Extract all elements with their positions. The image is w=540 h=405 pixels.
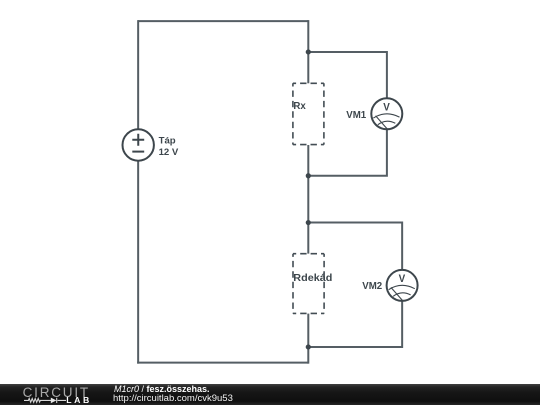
wire VM2 branch bottom xyxy=(308,301,402,347)
voltmeter VM1 xyxy=(371,98,402,129)
node junction at VM2 bottom xyxy=(306,344,311,349)
wire bottom horizontal xyxy=(137,362,308,364)
voltage source V1 Tap xyxy=(123,129,154,160)
svg-text:VM2: VM2 xyxy=(362,281,382,292)
node junction dots xyxy=(306,49,311,349)
wire VM1 branch bottom xyxy=(308,129,387,175)
svg-text:V: V xyxy=(383,102,390,114)
svg-text:V: V xyxy=(399,273,406,285)
wire left vertical lower xyxy=(137,161,139,364)
node junction at VM1 top xyxy=(306,49,311,54)
node junction at VM2 top xyxy=(306,220,311,225)
label Tap 12 V xyxy=(159,136,179,159)
wire middle vertical Rx to Rdekad xyxy=(307,145,309,254)
node junction at VM1 bottom xyxy=(306,173,311,178)
svg-text:LAB: LAB xyxy=(66,395,92,405)
svg-text:12 V: 12 V xyxy=(159,147,179,158)
wire VM1 branch top xyxy=(308,52,387,99)
svg-text:Rx: Rx xyxy=(293,101,306,112)
resistor Rx dashed box xyxy=(293,83,324,144)
logo diode triangle xyxy=(51,398,57,404)
wire middle vertical top to Rx xyxy=(307,20,309,83)
wire top horizontal xyxy=(138,20,308,22)
CircuitLab logo xyxy=(0,383,110,405)
footer bar xyxy=(0,384,540,405)
svg-text:Rdekád: Rdekád xyxy=(293,273,332,284)
resistor Rdekad dashed box xyxy=(293,254,324,314)
wire middle vertical Rdekad to bottom xyxy=(307,314,309,364)
logo resistor zigzag and wire xyxy=(24,398,66,403)
wire VM2 branch top xyxy=(308,223,402,271)
svg-text:Táp: Táp xyxy=(159,136,176,147)
svg-text:VM1: VM1 xyxy=(346,110,367,121)
wire left vertical upper xyxy=(137,20,139,129)
voltmeter VM2 xyxy=(387,270,418,301)
